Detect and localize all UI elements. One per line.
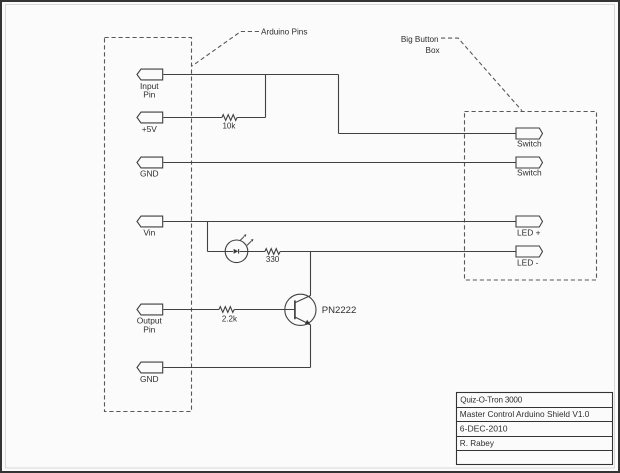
wire Vin to LED + — [163, 221, 516, 223]
svg-text:Pin: Pin — [143, 324, 155, 334]
connector pin GND upper — [137, 157, 163, 178]
svg-text:10k: 10k — [222, 122, 236, 131]
resistor 10k — [222, 115, 237, 121]
connector pin Switch 2 — [516, 157, 543, 178]
wire resistor 2.2k to base — [234, 309, 295, 311]
svg-text:PN2222: PN2222 — [322, 305, 357, 316]
wire to LED lamp — [208, 251, 234, 253]
wire Input Pin to corner — [163, 74, 338, 76]
connector pin GND lower — [137, 362, 163, 384]
svg-text:Box: Box — [425, 46, 439, 55]
svg-text:Vin: Vin — [143, 228, 155, 238]
wire +5V to resistor 10k — [163, 117, 222, 119]
connector pin Input Pin — [137, 69, 163, 100]
wire Output Pin to resistor 2.2k — [163, 309, 219, 311]
svg-text:330: 330 — [266, 255, 280, 264]
svg-text:Pin: Pin — [143, 90, 155, 100]
svg-text:Switch: Switch — [517, 168, 542, 178]
svg-text:Quiz-O-Tron 3000: Quiz-O-Tron 3000 — [460, 395, 522, 404]
wire collector junction down — [310, 252, 312, 296]
svg-text:+5V: +5V — [142, 124, 158, 134]
transistor PN2222 — [285, 294, 316, 325]
dashed box Big Button Box — [465, 112, 597, 281]
wire resistor 10k to junction — [237, 117, 265, 119]
svg-text:LED -: LED - — [517, 258, 539, 268]
svg-text:2.2k: 2.2k — [222, 315, 238, 324]
wire junction up to Input net — [265, 75, 267, 118]
svg-text:LED +: LED + — [517, 227, 541, 237]
wire corner to Switch 1 — [339, 133, 517, 135]
wire corner down — [338, 75, 340, 134]
resistor 330 — [265, 249, 280, 255]
resistor 2.2k — [219, 307, 234, 313]
connector pin LED - — [516, 246, 543, 268]
callout leader Arduino Pins — [192, 32, 259, 67]
wire LED lamp to resistor 330 — [240, 251, 265, 253]
connector pin Output Pin — [137, 304, 163, 334]
svg-text:GND: GND — [140, 168, 159, 178]
title block — [457, 393, 613, 465]
svg-text:6-DEC-2010: 6-DEC-2010 — [460, 423, 508, 433]
callout leader Big Button Box — [441, 38, 522, 111]
wire Vin junction down — [207, 222, 209, 252]
dashed box Arduino Pins — [105, 38, 192, 412]
wire emitter down — [310, 325, 312, 368]
wire GND lower to emitter — [163, 367, 310, 369]
connector pin +5V — [137, 112, 163, 134]
svg-text:Big Button: Big Button — [401, 35, 439, 44]
svg-text:Switch: Switch — [517, 139, 542, 149]
wire resistor 330 to LED - — [280, 251, 516, 253]
wire GND to Switch 2 — [163, 162, 516, 164]
svg-text:Arduino Pins: Arduino Pins — [261, 27, 307, 36]
svg-text:Master Control Arduino Shield: Master Control Arduino Shield V1.0 — [460, 409, 590, 419]
connector pin LED + — [516, 216, 543, 237]
LED indicator lamp — [225, 234, 253, 262]
svg-text:GND: GND — [140, 374, 159, 384]
connector pin Switch 1 — [516, 128, 543, 149]
connector pin Vin — [137, 216, 163, 237]
svg-text:R. Rabey: R. Rabey — [460, 439, 495, 448]
